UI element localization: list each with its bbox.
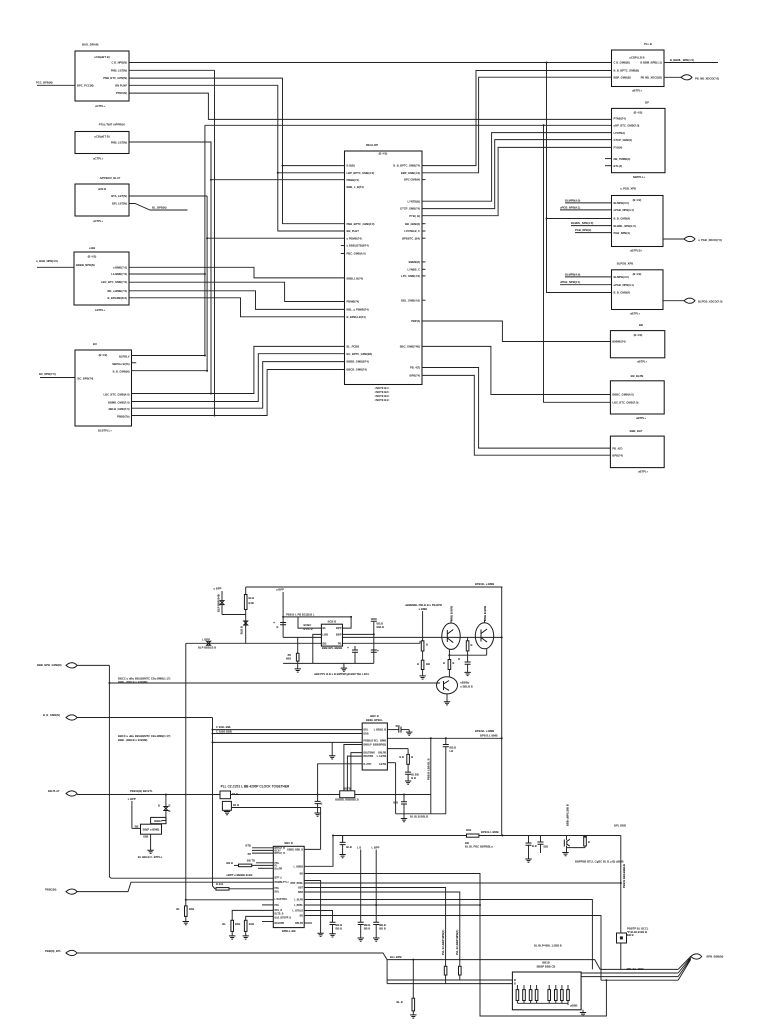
net stub D p5 bbox=[575, 232, 612, 234]
svg-text:B: B bbox=[426, 643, 428, 647]
svg-text:BPBLL-BB: BPBLL-BB bbox=[282, 929, 296, 933]
svg-text:B_B_GMB(N): B_B_GMB(N) bbox=[113, 370, 130, 374]
svg-text:B: B bbox=[471, 643, 473, 647]
wire IC1 pin3 with gnd bbox=[213, 741, 363, 743]
svg-text:(B 4 B): (B 4 B) bbox=[379, 152, 388, 156]
IC4 box resistor network bbox=[512, 972, 581, 1010]
svg-text:BB: BB bbox=[135, 824, 139, 828]
svg-text:BB TB: BB TB bbox=[247, 859, 255, 863]
svg-text:BPL BBB: BPL BBB bbox=[614, 824, 626, 828]
IC1 WPLL box bbox=[362, 723, 387, 770]
svg-text:LBC_BTC_GMB(7:0): LBC_BTC_GMB(7:0) bbox=[612, 401, 638, 405]
svg-text:BBB - (BBLB u B BMB): BBB - (BBLB u B BMB) bbox=[118, 680, 148, 684]
wire H878 to IC3 pin bbox=[112, 877, 273, 879]
svg-text:<NOTE B3>: <NOTE B3> bbox=[375, 394, 390, 398]
IC3 left stubs bbox=[252, 847, 273, 849]
svg-text:Lb BMB(7:0): Lb BMB(7:0) bbox=[111, 272, 127, 276]
svg-text:PCC_BPB(N): PCC_BPB(N) bbox=[36, 81, 53, 85]
block A BUS_DRAM bbox=[75, 51, 129, 101]
diode on V245.7 bbox=[244, 621, 248, 625]
svg-text:BB1B: BB1B bbox=[542, 961, 549, 965]
wire W4 A.p4 to E.p2 and E.p6 bbox=[129, 85, 345, 231]
wire oval2 to V212.5 bbox=[77, 717, 213, 719]
svg-text:C B_NPB(N): C B_NPB(N) bbox=[111, 61, 127, 65]
svg-text:BB B: BB B bbox=[627, 933, 634, 937]
svg-text:BBBLL B(74): BBBLL B(74) bbox=[347, 277, 364, 281]
svg-text:B B B: B B B bbox=[216, 882, 223, 886]
svg-text:PNB_BTC_GPB(N): PNB_BTC_GPB(N) bbox=[103, 76, 127, 80]
svg-text:BN PLNP: BN PLNP bbox=[115, 83, 127, 87]
wire A 873.5 to V480 bbox=[304, 874, 606, 1017]
svg-text:BLB_BTBPP_B: BLB_BTBPP_B bbox=[275, 917, 292, 919]
wire E.PBP to H.p1 bbox=[422, 321, 610, 342]
wire B5.p4 to E.p14 bbox=[132, 346, 345, 393]
svg-text:BLMPB(4:0): BLMPB(4:0) bbox=[614, 201, 629, 205]
svg-text:BBB_BPB_GMB(N): BBB_BPB_GMB(N) bbox=[37, 663, 62, 667]
bottom rail of assembly bbox=[396, 813, 447, 815]
svg-text:(B 4 B): (B 4 B) bbox=[634, 333, 643, 337]
svg-text:uCB B: uCB B bbox=[98, 187, 106, 191]
svg-text:BBMBLPT LI: BBMBLPT LI bbox=[275, 882, 289, 884]
gnd below rail bbox=[403, 814, 405, 819]
svg-text:BBCC u uBu BBLBBMTC CBu BMB(1:: BBCC u uBu BBLBBMTC CBu BMB(1:17) bbox=[118, 734, 171, 738]
svg-text:uPGB_NPB(4:1): uPGB_NPB(4:1) bbox=[614, 283, 634, 287]
svg-text:BB.B: BB.B bbox=[364, 923, 371, 927]
IC1 left pin7 drop bbox=[318, 764, 363, 795]
svg-text:BBL: BBL bbox=[364, 730, 369, 732]
svg-text:BB: BB bbox=[288, 655, 292, 657]
svg-text:BTL(4): BTL(4) bbox=[614, 164, 623, 168]
svg-text:B1 B: B1 B bbox=[232, 792, 238, 796]
svg-text:BBLB_GMB(7:0): BBLB_GMB(7:0) bbox=[109, 407, 130, 411]
wire C.p3 down to E.r4 bbox=[422, 133, 612, 202]
svg-text:BUS_DRAM: BUS_DRAM bbox=[82, 43, 99, 47]
svg-text:PNB_LBT(N): PNB_LBT(N) bbox=[111, 68, 127, 72]
svg-text:B: B bbox=[321, 802, 323, 806]
svg-text:B: B bbox=[417, 662, 419, 666]
wire BB_PLAY right segment bbox=[355, 794, 431, 796]
svg-text:BL: BL bbox=[222, 922, 226, 926]
svg-text:(B 4 B): (B 4 B) bbox=[633, 272, 642, 276]
svg-text:u_BGB_NPB(4:0): u_BGB_NPB(4:0) bbox=[36, 259, 58, 263]
IC2 right pin1 from H1 bbox=[343, 617, 352, 628]
wire D 892 resistor down bbox=[304, 892, 460, 966]
svg-text:BBTB: BBTB bbox=[343, 787, 351, 791]
connector under transistors bbox=[449, 654, 486, 656]
svg-text:PTNC(N): PTNC(N) bbox=[116, 91, 127, 95]
svg-text:BB: BB bbox=[426, 662, 430, 666]
wire E 899.5 to bundle bbox=[304, 900, 592, 970]
svg-text:BLMPB(4:0): BLMPB(4:0) bbox=[614, 275, 629, 279]
svg-text:BB B: BB B bbox=[336, 923, 343, 927]
svg-text:BB: BB bbox=[248, 854, 252, 856]
svg-text:u BBBLBTB(B74): u BBBLBTB(B74) bbox=[347, 244, 369, 248]
svg-text:uBPP u BBBBLB BB: uBPP u BBBBLB BB bbox=[226, 873, 252, 877]
svg-text:BBBP BBB CB: BBBP BBB CB bbox=[537, 965, 556, 969]
joining bar bbox=[567, 847, 585, 849]
Q3 emitter gnd bbox=[446, 694, 448, 702]
block C BP bbox=[612, 108, 666, 172]
svg-text:uBTPLB+: uBTPLB+ bbox=[630, 249, 643, 253]
svg-text:uBP_BTC_GMB(7:0): uBP_BTC_GMB(7:0) bbox=[614, 124, 640, 128]
svg-text:REALOP: REALOP bbox=[366, 143, 378, 147]
svg-text:PBL: PBL bbox=[275, 905, 280, 907]
cap on supply left bbox=[280, 623, 286, 625]
svg-text:PBMB(74): PBMB(74) bbox=[347, 300, 360, 304]
svg-text:BPL B.L BBB: BPL B.L BBB bbox=[627, 967, 644, 971]
svg-text:BBLB: BBLB bbox=[377, 625, 385, 629]
svg-text:BB: BB bbox=[300, 916, 304, 918]
stub E.p8 bbox=[341, 245, 345, 247]
wire branch to IC3 pin5 bbox=[186, 899, 273, 901]
wire B3 pin2 net label BL_BPB bbox=[129, 204, 188, 211]
svg-text:B_BPGMB(N:0): B_BPGMB(N:0) bbox=[107, 296, 127, 300]
svg-text:BB B: BB B bbox=[336, 926, 343, 930]
wire E.BPB to J.p2 bbox=[422, 375, 610, 455]
cap drop x342.6 bbox=[342, 836, 344, 843]
ground under resistor chain bbox=[419, 676, 425, 679]
svg-text:B: B bbox=[169, 809, 171, 813]
drop x430.8 bbox=[430, 738, 432, 814]
svg-text:BPL LBT(N): BPL LBT(N) bbox=[112, 202, 127, 206]
svg-text:LBTPL+: LBTPL+ bbox=[95, 308, 106, 312]
pin stub E right 275.9 bbox=[422, 275, 426, 277]
svg-text:u BPP: u BPP bbox=[276, 588, 284, 592]
svg-text:BB.B: BB.B bbox=[450, 746, 457, 750]
svg-text:BMBLP: BMBLP bbox=[364, 745, 373, 747]
svg-text:PBB B LBB BL B: PBB B LBB BL B bbox=[427, 758, 431, 780]
diode drop bbox=[165, 795, 167, 807]
right border vertical bbox=[501, 587, 503, 836]
svg-text:+: + bbox=[347, 646, 349, 650]
svg-text:PBBBLB BCL: PBBBLB BCL bbox=[364, 740, 380, 742]
wire B5.p5 to E.p15 bbox=[132, 354, 345, 402]
svg-text:BBT: BBT bbox=[298, 888, 303, 890]
bus vertical V204.9 bbox=[204, 125, 206, 355]
caps between rails bbox=[354, 646, 356, 650]
svg-text:BLB: BLB bbox=[346, 845, 352, 849]
svg-text:uPGB_NPB(4:1): uPGB_NPB(4:1) bbox=[614, 208, 634, 212]
resistor R_q1b bbox=[421, 660, 424, 669]
svg-text:BBC B: BBC B bbox=[284, 841, 293, 845]
wire E.PB4 to J.p1 bbox=[422, 368, 610, 449]
svg-text:PLL B: PLL B bbox=[644, 42, 652, 46]
svg-text:B: B bbox=[453, 661, 455, 665]
svg-text:(B 4 B): (B 4 B) bbox=[634, 111, 643, 115]
wire B5 left pin BC_NPB bbox=[40, 377, 75, 379]
wire F 905 bbox=[304, 904, 480, 906]
IC3 left stub pin 862 bbox=[256, 862, 273, 864]
IC1 left pin4 drop bbox=[344, 745, 362, 791]
svg-text:BBP_GMB(B): BBP_GMB(B) bbox=[614, 75, 631, 79]
svg-text:BBBC_GMB(4:0): BBBC_GMB(4:0) bbox=[612, 393, 633, 397]
svg-text:PLL CZ.C201 L BB 4200P CLOCK: PLL CZ.C201 L BB 4200P CLOCK TOGETHER bbox=[221, 785, 290, 789]
IC4 left pin wires bbox=[387, 979, 512, 981]
rail R2 with series diode bbox=[186, 642, 322, 644]
resistor array r7 bbox=[561, 985, 563, 990]
svg-text:BPC GMB(4): BPC GMB(4) bbox=[404, 178, 420, 182]
block B PLL_B bbox=[612, 50, 665, 87]
bus vertical V211 bbox=[210, 142, 212, 394]
svg-text:uBTPL+: uBTPL+ bbox=[638, 470, 649, 474]
wire BB_PLAY left segment bbox=[77, 794, 220, 796]
IC1 left pin5 drop bbox=[351, 753, 362, 791]
pin stub E right 269.3 bbox=[422, 268, 426, 270]
svg-text:B_B_GMB(4): B_B_GMB(4) bbox=[614, 217, 631, 221]
svg-text:BTA_LBT(N): BTA_LBT(N) bbox=[111, 194, 127, 198]
wire B4.p4 to E.p12 bbox=[129, 291, 345, 310]
svg-text:u BMB(7:0): u BMB(7:0) bbox=[113, 265, 127, 269]
svg-text:B1B: B1B bbox=[466, 828, 471, 832]
svg-text:BTB: BTB bbox=[245, 844, 251, 848]
wire W7 B2.p1 to E.p3 via bus bbox=[129, 142, 345, 180]
block D u_PGB_XPB bbox=[612, 196, 664, 247]
svg-text:BPB(74): BPB(74) bbox=[410, 374, 421, 378]
stub E.p9 bbox=[341, 253, 345, 255]
svg-text:C B.BL BBL: C B.BL BBL bbox=[216, 725, 232, 729]
svg-text:BB_GMB(4): BB_GMB(4) bbox=[405, 222, 420, 226]
pin stub E right 231 bbox=[422, 230, 426, 232]
block B3 APPBOU_BLAY bbox=[75, 184, 129, 216]
svg-text:B|B: B|B bbox=[544, 845, 549, 849]
wire B2 883 long to connector V bbox=[304, 882, 621, 884]
oval connector PB_NE_XDCO bbox=[664, 76, 681, 78]
wire PBB_BTL long bbox=[77, 953, 600, 969]
svg-text:BBBBL BBBBBLB: BBBBL BBBBBLB bbox=[335, 798, 358, 802]
wire W5 A.p5 to C.p1 bbox=[129, 93, 612, 119]
chamfer V109 to H875 bbox=[109, 876, 112, 879]
svg-text:BPB BL u BMB: BPB BL u BMB bbox=[475, 729, 494, 733]
svg-text:BL_PCBB: BL_PCBB bbox=[347, 345, 360, 349]
svg-text:+: + bbox=[377, 649, 379, 653]
svg-text:B: B bbox=[169, 804, 171, 808]
svg-text:LYNTNA): LYNTNA) bbox=[614, 131, 626, 135]
svg-text:PBC_GMB(4:0): PBC_GMB(4:0) bbox=[347, 252, 366, 256]
svg-text:B1B: B1B bbox=[249, 601, 254, 605]
svg-text:C B.BB BBB: C B.BB BBB bbox=[216, 729, 232, 733]
IC1 right rail R2b bbox=[387, 737, 501, 739]
svg-text:BBLTBMB: BBLTBMB bbox=[364, 753, 376, 755]
wire B4.p1 to E.p10 bbox=[129, 267, 345, 278]
svg-text:uCB(uBT B): uCB(uBT B) bbox=[94, 55, 109, 59]
R2 bracket to resistor chain bbox=[419, 641, 421, 643]
svg-text:uCTPL+: uCTPL+ bbox=[93, 157, 104, 161]
svg-text:B: B bbox=[514, 978, 516, 982]
svg-text:BBC B: BBC B bbox=[370, 714, 379, 718]
V320.6 to box2 chain bbox=[304, 848, 320, 850]
resistor drop x585 bbox=[584, 836, 586, 839]
svg-text:BBL: BBL bbox=[275, 892, 280, 894]
IC1 right pin LBTB drop bbox=[387, 762, 395, 764]
svg-text:BLBTPLL+: BLBTPLL+ bbox=[98, 429, 112, 433]
oval output BPB_BBB bbox=[691, 954, 702, 959]
svg-text:BLMPB(4:0): BLMPB(4:0) bbox=[565, 198, 580, 202]
svg-text:BPB B.L BMB: BPB B.L BMB bbox=[480, 734, 498, 738]
svg-text:BLPGB_XDCO(7:0): BLPGB_XDCO(7:0) bbox=[698, 300, 722, 304]
svg-text:BBPGu B(7b): BBPGu B(7b) bbox=[112, 362, 129, 366]
resistor pair to gnd bbox=[232, 910, 273, 920]
svg-text:BLL BPB: BLL BPB bbox=[390, 955, 402, 959]
svg-text:BPB BL u BMB: BPB BL u BMB bbox=[475, 582, 494, 586]
wire C.p4 down to E.r5 bbox=[422, 140, 612, 209]
svg-text:A/PPBOU_BLAY: A/PPBOU_BLAY bbox=[100, 176, 121, 180]
svg-text:(B 4 B): (B 4 B) bbox=[99, 353, 108, 357]
svg-text:BL BBLB C..BTPLL: BL BBLB C..BTPLL bbox=[138, 855, 163, 859]
svg-text:BU: BU bbox=[93, 342, 97, 346]
svg-text:BB: BB bbox=[323, 641, 327, 645]
svg-text:LBTB: LBTB bbox=[379, 762, 386, 766]
svg-text:LBP_BPTC_GMB(4:0): LBP_BPTC_GMB(4:0) bbox=[347, 171, 375, 175]
svg-text:BBB_L_B(74): BBB_L_B(74) bbox=[347, 185, 364, 189]
svg-text:BLTB_B: BLTB_B bbox=[275, 914, 284, 916]
svg-text:BBMB_GMB(7:0): BBMB_GMB(7:0) bbox=[108, 401, 130, 405]
transistor Q2 bbox=[475, 623, 493, 649]
wire oval1 to V109 bbox=[77, 664, 109, 666]
svg-text:B1B: B1B bbox=[235, 922, 240, 926]
svg-text:BBMB(4): BBMB(4) bbox=[409, 260, 420, 264]
svg-text:BBB: BBB bbox=[143, 837, 148, 839]
svg-text:u BMB: u BMB bbox=[419, 607, 428, 611]
rail H2 right part Q rail bbox=[343, 636, 502, 638]
cap top right bbox=[373, 622, 375, 664]
cap top x342.6b bbox=[304, 836, 333, 866]
svg-text:BL BLB BBLB: BL BLB BBLB bbox=[410, 814, 428, 818]
svg-text:BBB: BBB bbox=[286, 659, 291, 661]
wire B4 left pin bbox=[37, 266, 74, 268]
svg-text:uPGB_NPB(4:1): uPGB_NPB(4:1) bbox=[560, 280, 580, 284]
svg-text:u PBMB(74): u PBMB(74) bbox=[347, 236, 362, 240]
svg-text:L B: L B bbox=[357, 845, 361, 849]
svg-text:LYNBB_C: LYNBB_C bbox=[408, 267, 421, 271]
transistor Q3 bbox=[437, 677, 458, 694]
svg-text:LBC_BTC_GMB(7:0): LBC_BTC_GMB(7:0) bbox=[101, 280, 127, 284]
bus tap B4.p2 bbox=[129, 273, 205, 275]
svg-text:BMB B BPB: BMB B BPB bbox=[450, 606, 454, 621]
svg-text:BBBB_GMB(B74): BBBB_GMB(B74) bbox=[347, 360, 369, 364]
IC1 right pin resistor diode chain bbox=[387, 748, 408, 750]
svg-text:uBTPL+: uBTPL+ bbox=[637, 360, 648, 364]
svg-text:BB B: BB B bbox=[226, 861, 233, 865]
svg-text:PYB(4): PYB(4) bbox=[614, 146, 623, 150]
svg-text:u BB: u BB bbox=[89, 246, 95, 250]
wire V185.8 long down bbox=[185, 643, 187, 906]
svg-text:BLuPB: BLuPB bbox=[275, 868, 283, 870]
svg-text:BBCC u uBu BBLBBMTC CBu BMB(1:: BBCC u uBu BBLBBMTC CBu BMB(1:17) bbox=[118, 677, 171, 681]
IC3 left lower stubs bbox=[262, 904, 273, 906]
wire V212.5 vertical bbox=[212, 718, 214, 887]
svg-text:BBPPBB BTLL CgBC BL B.u B] uBM: BBPPBB BTLL CgBC BL B.u B] uBMB bbox=[575, 860, 624, 864]
rail 835 with series resistor bbox=[333, 835, 467, 837]
cap drop x528.5 bbox=[528, 836, 530, 844]
svg-text:PYB(_B): PYB(_B) bbox=[409, 214, 420, 218]
svg-text:PB_4(7): PB_4(7) bbox=[612, 446, 622, 450]
svg-text:BB PLAY: BB PLAY bbox=[48, 789, 60, 793]
junction V165.9 bbox=[165, 794, 167, 796]
svg-text:uBBBBBL PBLB B u PB BPB: uBBBBBL PBLB B u PB BPB bbox=[405, 603, 442, 607]
wire C.p2 long from bus bbox=[205, 124, 612, 126]
svg-text:B_BPBLLB(74): B_BPBLLB(74) bbox=[347, 315, 366, 319]
svg-text:BL BLP^BBL 1.5BB B: BL BLP^BBL 1.5BB B bbox=[534, 944, 562, 948]
svg-text:L_BTBLB: L_BTBLB bbox=[293, 911, 304, 913]
svg-text:BBB: BBB bbox=[298, 892, 303, 894]
resistor array r5 bbox=[548, 985, 550, 990]
svg-text:BP: BP bbox=[645, 101, 649, 105]
svg-text:(B 4 B): (B 4 B) bbox=[88, 255, 97, 259]
bus tap E.p7 bbox=[207, 237, 344, 239]
svg-text:BMB: BMB bbox=[380, 738, 386, 742]
resistor under Q1 bbox=[448, 660, 451, 670]
svg-text:BBL_u PBMB(74): BBL_u PBMB(74) bbox=[347, 308, 369, 312]
svg-text:B B: B B bbox=[399, 755, 404, 759]
block B2 PTAL/TBIT bbox=[75, 132, 129, 154]
svg-text:BLPGB_XPB: BLPGB_XPB bbox=[617, 262, 633, 266]
svg-text:<NOTE B1>: <NOTE B1> bbox=[375, 386, 390, 390]
svg-text:B: B bbox=[458, 657, 460, 661]
resistor array r2 bbox=[523, 985, 525, 990]
pin stub E right 300.2 bbox=[422, 299, 426, 301]
svg-text:BB_BLPB: BB_BLPB bbox=[631, 374, 644, 378]
block B4 u_BB bbox=[74, 252, 129, 305]
wire W3 A.p3 to E.p1 and E.p5 bbox=[129, 78, 345, 224]
svg-text:LYNTB(B): LYNTB(B) bbox=[408, 199, 421, 203]
wire E.r1 up to B.p2 bbox=[422, 71, 612, 166]
cap gnd at x317 bbox=[317, 795, 319, 802]
wire H683 to Q3 base bbox=[109, 682, 440, 684]
svg-text:BBB: BBB bbox=[364, 734, 369, 736]
stub I 923 bbox=[304, 922, 312, 924]
pin stub E right 238.2 bbox=[422, 237, 426, 239]
svg-text:uBBBu: uBBBu bbox=[460, 681, 469, 685]
svg-text:B BBM_BPB(1:1): B BBM_BPB(1:1) bbox=[640, 61, 662, 65]
svg-text:BBB uBPLLBB B: BBB uBPLLBB B bbox=[566, 804, 570, 826]
series box1 on BB_PLAY bbox=[220, 791, 231, 799]
svg-text:BLP BBBLB B: BLP BBBLB B bbox=[198, 646, 216, 650]
svg-text:BBC_GMB(74B): BBC_GMB(74B) bbox=[400, 345, 420, 349]
svg-text:u BPP: u BPP bbox=[214, 587, 222, 591]
svg-text:BB: BB bbox=[300, 874, 304, 876]
net stub D p4 bbox=[571, 225, 612, 227]
upper box BBL bbox=[151, 817, 166, 823]
svg-text:L LBTB: L LBTB bbox=[377, 754, 387, 758]
block J BBB_BLP bbox=[610, 436, 664, 468]
resistor array r4 bbox=[536, 985, 538, 990]
svg-text:BBCB_GMB(74): BBCB_GMB(74) bbox=[347, 368, 367, 372]
gnd below IC4 bbox=[582, 1010, 584, 1013]
svg-text:BB.B: BB.B bbox=[379, 923, 386, 927]
pin stub C p7 bbox=[605, 165, 612, 167]
svg-text:BTPLP_B: BTPLP_B bbox=[275, 853, 286, 855]
svg-text:BC_BPTC_GMB(B4): BC_BPTC_GMB(B4) bbox=[347, 352, 373, 356]
svg-text:PGB_NPB(4): PGB_NPB(4) bbox=[575, 228, 591, 232]
IC1 left pin6 drop bbox=[347, 756, 362, 791]
net stub D p1 bbox=[565, 202, 612, 204]
svg-text:B1B: B1B bbox=[249, 922, 254, 926]
box2 filter below bbox=[222, 801, 231, 810]
IC2 left pin2 down to H4 bbox=[313, 634, 322, 663]
wire B4.p5 to E.p13 bbox=[129, 298, 345, 317]
svg-text:L BPP: L BPP bbox=[202, 638, 210, 642]
bus vertical V207.1 bbox=[206, 196, 208, 371]
svg-text:BMMB(74): BMMB(74) bbox=[612, 340, 625, 344]
svg-text:BBP_BBBL: BBP_BBBL bbox=[290, 883, 303, 885]
svg-text:BLPBLV: BLPBLV bbox=[119, 355, 130, 359]
svg-text:+: + bbox=[273, 621, 275, 625]
wire W2 A.p2 bus bbox=[129, 69, 215, 71]
svg-text:BCBC: BCBC bbox=[304, 623, 312, 627]
wire H 915.5 to bundle w4 bbox=[304, 916, 601, 981]
corner down x620.8 bbox=[620, 836, 622, 934]
net stub D p2 bbox=[560, 209, 612, 211]
